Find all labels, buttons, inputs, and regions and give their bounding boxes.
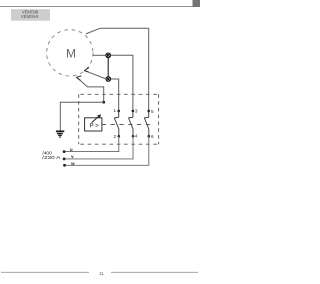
junction dot — [102, 101, 105, 104]
svg-text:u: u — [70, 147, 73, 152]
svg-text:VEM/SHt: VEM/SHt — [21, 14, 39, 19]
mechanical linkage (dashed) — [102, 123, 153, 125]
header rule — [0, 6, 193, 8]
terminal X1 — [106, 53, 111, 58]
pressure switch P> box — [85, 118, 102, 131]
pole 3 terminal dots — [147, 110, 150, 113]
ground — [56, 131, 64, 137]
footer rule left — [1, 271, 89, 273]
wire: link between terminals — [107, 58, 109, 77]
wire: motor lead A with arrow to terminal X2 — [85, 71, 106, 79]
wire: terminal X2 to pole 1 feed — [111, 79, 119, 111]
wire: pole2 to v — [64, 136, 133, 159]
pole 1 terminal dots — [117, 110, 120, 113]
switch pole 3-4 — [129, 111, 134, 136]
wire: terminal X1 to pole 3 feed — [111, 55, 133, 111]
wire: motor top lead diagonal — [86, 28, 149, 34]
wire: vertical feed to pole 5 — [148, 28, 150, 111]
pressure switch adjust arrow — [92, 116, 100, 123]
terminal X2 — [106, 77, 111, 82]
svg-text:w: w — [70, 161, 75, 166]
enclosure (dashed box) — [79, 94, 159, 144]
svg-text:M: M — [66, 47, 76, 61]
wire: pole3 to w — [65, 136, 149, 165]
svg-text:4: 4 — [135, 134, 138, 139]
svg-text:11: 11 — [99, 271, 104, 276]
switch pole 1-2 — [114, 111, 119, 136]
wire: earth run — [60, 102, 103, 131]
svg-text:2: 2 — [113, 134, 116, 139]
title box — [11, 9, 50, 21]
wire: pole1 to u — [64, 136, 119, 151]
switch pole 5-6 — [144, 111, 149, 136]
header corner block — [193, 0, 201, 7]
svg-text:5: 5 — [151, 109, 154, 114]
svg-text:/230 A: /230 A — [42, 155, 61, 161]
pole 2 terminal dots — [132, 110, 135, 113]
arrowhead lead A — [84, 68, 89, 72]
motor M1 circle (dashed) — [47, 30, 93, 76]
svg-text:3: 3 — [135, 109, 138, 114]
node w — [63, 164, 66, 167]
svg-text:P >: P > — [90, 124, 100, 130]
svg-text:1: 1 — [113, 108, 116, 113]
node u — [63, 150, 66, 153]
wire: motor lead B (to earth) — [77, 77, 104, 102]
wire: motor to terminal X1 — [93, 54, 106, 56]
arrowhead lead B — [76, 76, 81, 80]
footer rule right — [111, 271, 198, 273]
node v — [63, 158, 66, 161]
svg-text:6: 6 — [151, 134, 154, 139]
